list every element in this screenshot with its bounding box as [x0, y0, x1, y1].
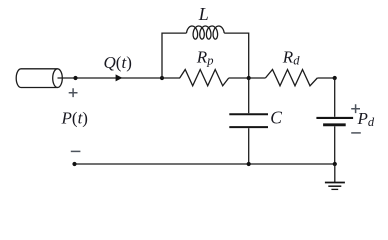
svg-text:Rp: Rp — [196, 47, 214, 67]
capacitor C branch: upper wire — [248, 78, 250, 113]
wire Rd to node D — [317, 77, 334, 79]
svg-text:P(t): P(t) — [61, 108, 88, 127]
wire node B to Rp — [162, 77, 180, 79]
node B (top-left junction) — [160, 76, 164, 80]
ground stub — [334, 164, 336, 182]
svg-text:L: L — [198, 4, 209, 24]
svg-text:C: C — [270, 108, 282, 128]
label - (source) — [71, 150, 81, 152]
svg-text:Q(t): Q(t) — [104, 53, 132, 72]
wire L-branch left vertical — [162, 33, 187, 78]
battery Pd long plate — [316, 117, 353, 119]
inductor L coil — [187, 26, 225, 39]
node G (ground junction) — [333, 162, 337, 166]
battery Pd short plate — [323, 123, 346, 126]
capacitor C lower wire — [248, 128, 250, 164]
wire node C to Rd — [249, 77, 266, 79]
svg-text:Rd: Rd — [282, 47, 300, 67]
bottom wire — [75, 163, 335, 165]
wire Rp to node C — [229, 77, 249, 79]
battery Pd lower wire — [334, 126, 336, 164]
wire top: source to node B — [58, 77, 163, 79]
node E (source - terminal) — [72, 162, 76, 166]
resistor Rp zigzag — [180, 70, 229, 86]
arrow on wire (flow direction) — [116, 74, 123, 81]
ground bars — [325, 182, 345, 184]
resistor Rd zigzag — [265, 70, 317, 86]
label + (source) — [69, 88, 78, 97]
label - (battery) — [351, 132, 361, 134]
wire L-branch right vertical — [224, 33, 249, 78]
node A (source + terminal) — [73, 76, 77, 80]
node C (top-middle junction) — [247, 76, 251, 80]
node D (top-right junction) — [333, 76, 337, 80]
svg-text:Pd: Pd — [357, 109, 375, 129]
capacitor C plates — [229, 114, 268, 127]
battery Pd: upper wire — [334, 78, 336, 117]
source cylinder (flow source) — [16, 69, 62, 88]
node F (capacitor bottom) — [247, 162, 251, 166]
label + (battery) — [351, 104, 360, 113]
